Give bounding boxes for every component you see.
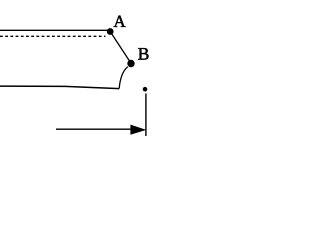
node: small right dot	[143, 87, 148, 92]
wire: arrow shaft	[56, 128, 133, 130]
node B label	[138, 48, 148, 60]
wire: diagonal A to B	[112, 34, 130, 62]
wire: dashed horizontal line	[0, 35, 106, 37]
node A label	[114, 16, 126, 27]
wire: top solid horizontal line	[0, 29, 108, 31]
node A dot	[107, 28, 114, 35]
node B dot	[127, 60, 134, 67]
arrowhead	[130, 125, 146, 135]
wire: right vertical line	[145, 94, 147, 137]
wire: bottom solid line	[0, 86, 119, 89]
wire: curve from B down to bottom line	[119, 67, 128, 89]
